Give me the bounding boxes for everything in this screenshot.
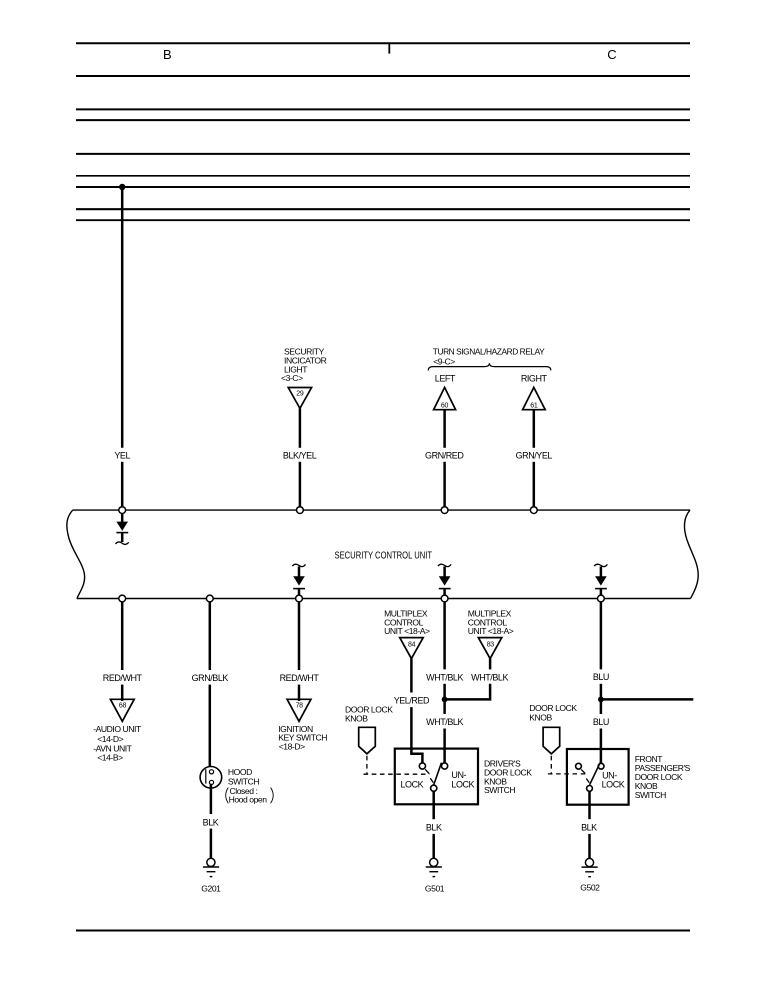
node junction dot BLU xyxy=(598,697,604,703)
wire YEL/RED upper segment xyxy=(410,659,413,693)
wire GRN/YEL upper segment xyxy=(533,410,536,448)
svg-text:KNOB: KNOB xyxy=(529,712,552,722)
svg-text:KNOB: KNOB xyxy=(345,713,368,723)
svg-text:68: 68 xyxy=(119,703,127,710)
node junction dot on bus line 7 xyxy=(119,184,125,190)
horizontal bus line 2 xyxy=(76,75,690,77)
dashed linkage left knob xyxy=(364,756,430,774)
svg-text:WHT/BLK: WHT/BLK xyxy=(426,717,463,727)
wire WHT/BLK from 83 elbow to junction xyxy=(446,684,490,700)
wire label BLK G501 xyxy=(426,823,442,833)
label G501 xyxy=(425,884,445,894)
svg-text:SECURITY CONTROL UNIT: SECURITY CONTROL UNIT xyxy=(335,551,433,562)
svg-text:LOCK: LOCK xyxy=(451,780,474,790)
node junction dot WHT/BLK xyxy=(442,697,448,703)
driver switch common contact xyxy=(431,785,437,791)
passenger switch lever barb xyxy=(586,779,589,783)
label G201 xyxy=(201,884,221,894)
connector pin circle band bottom x210 xyxy=(206,595,213,602)
wire label GRN/RED xyxy=(425,450,464,460)
label MULTIPLEX CONTROL UNIT left xyxy=(384,609,430,636)
svg-text:UN-: UN- xyxy=(451,770,466,780)
svg-text:YEL: YEL xyxy=(114,450,130,460)
svg-text:<18-D>: <18-D> xyxy=(279,741,305,751)
horizontal bus line 6 xyxy=(76,175,690,177)
svg-text:<14-B>: <14-B> xyxy=(97,753,123,763)
ground G201 xyxy=(203,858,219,876)
wire WHT/BLK from band upper segment xyxy=(443,602,446,670)
connector pin circle band bottom x122 xyxy=(119,595,126,602)
svg-text:TURN SIGNAL/HAZARD RELAY: TURN SIGNAL/HAZARD RELAY xyxy=(433,347,545,357)
label MULTIPLEX CONTROL UNIT right xyxy=(468,609,514,636)
svg-text:78: 78 xyxy=(296,703,304,710)
wire GRN/RED upper segment xyxy=(443,410,446,448)
wire label WHT/BLK left xyxy=(426,672,463,682)
svg-text:BLK: BLK xyxy=(581,822,597,832)
label IGNITION KEY SWITCH xyxy=(278,724,327,751)
svg-text:G501: G501 xyxy=(425,884,445,894)
wire YEL vertical lower segment xyxy=(121,462,124,507)
svg-text:RED/WHT: RED/WHT xyxy=(280,673,320,683)
svg-text:Hood open: Hood open xyxy=(229,795,268,805)
driver switch lock stub xyxy=(425,769,429,773)
door lock knob symbol left xyxy=(359,727,376,754)
internal arrow symbol above bottom pin x299 xyxy=(292,564,305,595)
svg-text:YEL/RED: YEL/RED xyxy=(394,696,430,706)
passenger switch common contact xyxy=(587,786,593,792)
wire BLU upper segment xyxy=(600,602,603,670)
label FRONT PASSENGER'S DOOR LOCK KNOB SWITCH xyxy=(635,754,691,800)
svg-text:GRN/RED: GRN/RED xyxy=(425,450,464,460)
svg-text:<3-C>: <3-C> xyxy=(281,373,303,383)
internal arrow symbol above bottom pin x445 xyxy=(438,564,451,595)
hood switch xyxy=(200,767,222,789)
wire GRN/RED lower segment xyxy=(443,462,446,507)
horizontal bus line 8 xyxy=(76,208,690,210)
horizontal bus line 9 xyxy=(76,219,690,221)
svg-text:SWITCH: SWITCH xyxy=(484,785,515,795)
label RIGHT xyxy=(521,374,548,384)
wire BLK from passenger switch upper segment xyxy=(588,791,591,819)
horizontal bus line 3 xyxy=(76,108,690,110)
label HOOD SWITCH xyxy=(226,767,274,805)
wire label WHT/BLK lower xyxy=(426,717,463,727)
wire label BLK/YEL xyxy=(283,450,317,460)
svg-text:C: C xyxy=(607,47,616,62)
wire label BLU lower xyxy=(593,717,609,727)
svg-text:WHT/BLK: WHT/BLK xyxy=(426,672,463,682)
grid label C xyxy=(607,47,616,62)
label UN-LOCK passenger xyxy=(602,770,625,789)
wire BLU branch horizontal xyxy=(601,698,693,701)
connector triangle 84 xyxy=(400,638,424,659)
wire WHT/BLK below junction segment xyxy=(443,699,446,714)
wire BLK to G502 lower segment xyxy=(588,834,591,859)
door lock knob symbol right xyxy=(543,727,560,754)
wire WHT/BLK into switch box xyxy=(443,729,446,764)
connector pin circle band bottom x601 xyxy=(598,595,605,602)
svg-text:RED/WHT: RED/WHT xyxy=(103,673,143,683)
wire label BLU upper xyxy=(593,672,609,682)
svg-text:SWITCH: SWITCH xyxy=(228,776,259,786)
svg-text:BLU: BLU xyxy=(593,717,609,727)
wire RED/WHT to audio unit lower segment xyxy=(121,685,124,701)
label LOCK driver xyxy=(401,780,424,790)
wire BLK from hood switch upper segment xyxy=(210,784,213,814)
grid tick xyxy=(388,43,390,54)
connector pin circle band top x445 xyxy=(441,507,448,514)
wire WHT/BLK from 83 upper segment xyxy=(489,659,492,670)
wire GRN/YEL lower segment xyxy=(533,462,536,507)
svg-text:UNIT <18-A>: UNIT <18-A> xyxy=(468,626,514,636)
connector pin circle band top x534 xyxy=(530,507,537,514)
svg-text:LOCK: LOCK xyxy=(401,780,424,790)
wire label BLK G502 xyxy=(581,822,597,832)
svg-text:UNIT <18-A>: UNIT <18-A> xyxy=(384,626,430,636)
wire BLU middle segment xyxy=(600,684,603,700)
svg-text:BLU: BLU xyxy=(593,672,609,682)
dashed linkage right knob xyxy=(548,756,586,774)
ground G502 xyxy=(582,858,598,876)
connector pin circle band bottom x445 xyxy=(441,595,448,602)
driver switch UN-LOCK contact xyxy=(442,763,448,769)
svg-text:G502: G502 xyxy=(580,883,600,893)
connector triangle 68 xyxy=(110,699,134,721)
horizontal bus line 5 xyxy=(76,153,690,155)
driver switch lever xyxy=(434,763,442,785)
wire label RED/WHT xyxy=(103,673,143,683)
svg-text:GRN/BLK: GRN/BLK xyxy=(192,673,229,683)
ground G501 xyxy=(426,858,442,876)
wire RED/WHT to ignition lower segment xyxy=(298,685,301,701)
label AUDIO UNIT / AVN UNIT xyxy=(93,724,142,763)
label DOOR LOCK KNOB right xyxy=(529,703,577,722)
label LEFT xyxy=(435,374,456,384)
label G502 xyxy=(580,883,600,893)
wire BLK/YEL lower segment xyxy=(299,462,302,507)
wire BLK to G201 lower segment xyxy=(210,829,213,859)
label DOOR LOCK KNOB left xyxy=(345,705,393,724)
svg-text:29: 29 xyxy=(296,391,304,398)
wire label RED/WHT ignition xyxy=(280,673,320,683)
wire WHT/BLK middle segment xyxy=(443,684,446,700)
svg-text:WHT/BLK: WHT/BLK xyxy=(471,672,508,682)
passenger switch UN-LOCK contact xyxy=(598,763,604,769)
svg-text:RIGHT: RIGHT xyxy=(521,374,548,384)
wire label YEL/RED xyxy=(394,696,430,706)
horizontal bus line 4 xyxy=(76,119,690,121)
connector triangle 29 xyxy=(288,388,311,409)
svg-text:GRN/YEL: GRN/YEL xyxy=(516,450,553,460)
connector triangle 61 xyxy=(523,387,546,409)
svg-text:BLK: BLK xyxy=(203,817,219,827)
svg-text:BLK: BLK xyxy=(426,823,442,833)
wire label BLK G201 xyxy=(203,817,219,827)
label SECURITY CONTROL UNIT xyxy=(335,551,433,562)
label UN-LOCK driver xyxy=(451,770,474,790)
wire BLU into passenger switch box xyxy=(600,729,603,764)
svg-text:83: 83 xyxy=(487,641,495,648)
driver's door lock knob switch box xyxy=(395,749,478,805)
connector triangle 83 xyxy=(478,638,502,659)
svg-text:BLK/YEL: BLK/YEL xyxy=(283,450,317,460)
wire GRN/BLK lower segment xyxy=(209,685,212,770)
passenger switch lever xyxy=(590,763,601,785)
svg-text:-AUDIO UNIT: -AUDIO UNIT xyxy=(93,724,142,734)
svg-text:SWITCH: SWITCH xyxy=(635,790,666,800)
svg-text:61: 61 xyxy=(530,402,538,409)
internal arrow symbol below top pin x122 xyxy=(116,514,129,545)
label SECURITY INDICATOR LIGHT xyxy=(281,346,327,383)
svg-text:B: B xyxy=(163,47,172,62)
connector pin circle band bottom x299 xyxy=(296,595,303,602)
connector triangle 78 xyxy=(287,699,311,721)
wire label WHT/BLK right xyxy=(471,672,508,682)
wire RED/WHT to audio unit upper segment xyxy=(121,602,124,670)
wire GRN/BLK upper segment xyxy=(209,602,212,670)
wire BLU below junction segment xyxy=(600,699,603,714)
svg-text:<9-C>: <9-C> xyxy=(433,357,455,367)
security control unit band outline xyxy=(67,510,698,598)
wire label YEL xyxy=(114,450,130,460)
wire RED/WHT to ignition upper segment xyxy=(298,602,301,670)
label DRIVER'S DOOR LOCK KNOB SWITCH xyxy=(484,759,532,796)
wire BLK to G501 lower segment xyxy=(432,834,435,858)
passenger switch LOCK contact xyxy=(576,763,582,769)
wire BLK/YEL upper segment xyxy=(299,408,302,447)
brace over relay terminals xyxy=(428,363,551,370)
svg-text:60: 60 xyxy=(441,402,449,409)
connector pin circle band top x299 xyxy=(297,507,304,514)
driver switch LOCK contact xyxy=(419,763,425,769)
internal arrow symbol above bottom pin x601 xyxy=(594,564,607,595)
wire label GRN/YEL xyxy=(516,450,553,460)
wire YEL vertical upper segment xyxy=(121,187,124,448)
grid label B xyxy=(163,47,172,62)
svg-text:G201: G201 xyxy=(201,884,221,894)
wire BLK from driver switch upper segment xyxy=(432,791,435,819)
driver switch lever barb xyxy=(430,778,433,782)
bottom frame line xyxy=(76,930,690,932)
front passenger's door lock knob switch box xyxy=(567,749,629,805)
connector triangle 60 xyxy=(434,387,456,409)
svg-text:84: 84 xyxy=(408,641,416,648)
connector pin circle band top x122 xyxy=(119,507,126,514)
horizontal bus line 7 xyxy=(76,186,690,188)
svg-text:LOCK: LOCK xyxy=(602,779,625,789)
label TURN SIGNAL/HAZARD RELAY xyxy=(433,347,545,367)
horizontal bus line 1 xyxy=(76,42,690,44)
passenger switch lock stub xyxy=(581,769,585,773)
wire label GRN/BLK xyxy=(192,673,229,683)
wire YEL/RED lower segment into switch box xyxy=(411,707,422,763)
svg-text:LEFT: LEFT xyxy=(435,374,456,384)
